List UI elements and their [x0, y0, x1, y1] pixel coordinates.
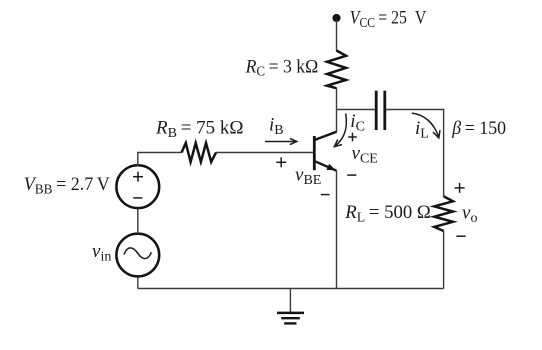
capacitor C	[376, 91, 385, 130]
svg-text:vCE: vCE	[352, 143, 378, 166]
svg-text:iC: iC	[350, 111, 365, 134]
resistor RB	[182, 143, 216, 162]
wire RB to base	[216, 152, 313, 154]
svg-text:RC = 3 kΩ: RC = 3 kΩ	[245, 56, 319, 79]
wire RC bottom to collector node	[336, 88, 338, 132]
source VBB circle	[116, 165, 159, 208]
wire bottom left to vin source	[137, 276, 139, 289]
svg-text:RL = 500 Ω: RL = 500 Ω	[344, 202, 430, 225]
bottom wire	[138, 288, 444, 290]
svg-text:VCC = 25 V: VCC = 25 V	[350, 7, 427, 30]
wire RL to bottom right corner	[443, 231, 445, 289]
current arrow iC	[334, 114, 346, 147]
wire capacitor to right corner	[386, 110, 444, 197]
wire collector node to capacitor	[337, 109, 375, 111]
svg-text:vBE: vBE	[295, 165, 321, 188]
svg-text:iB: iB	[269, 115, 284, 138]
plus sign inside VBB	[133, 172, 143, 182]
source vin circle	[116, 234, 159, 277]
plus sign vBE	[276, 157, 286, 167]
transistor Q1	[314, 132, 337, 171]
minus sign vBE	[321, 194, 330, 196]
svg-text:VBB = 2.7 V: VBB = 2.7 V	[24, 174, 110, 197]
minus sign vo	[456, 235, 465, 237]
sine wave	[124, 248, 151, 259]
svg-text:vin: vin	[92, 241, 111, 264]
current arrow iB	[265, 138, 297, 144]
svg-text:iL: iL	[415, 118, 429, 141]
minus sign inside VBB	[133, 197, 142, 199]
plus sign vo	[455, 183, 465, 193]
wire emitter down	[336, 171, 338, 289]
minus sign vCE	[347, 174, 356, 176]
node VCC dot	[332, 14, 340, 22]
current arrow iL	[412, 113, 440, 138]
wire VCC to RC	[336, 20, 338, 51]
resistor RL	[434, 196, 453, 231]
wire VBB to base corner	[138, 153, 182, 167]
svg-text:β = 150: β = 150	[451, 118, 506, 139]
svg-text:vo: vo	[462, 203, 477, 226]
wire between sources	[137, 208, 139, 233]
resistor RC	[327, 51, 346, 89]
plus sign vCE	[348, 133, 357, 142]
ground	[277, 289, 304, 324]
svg-text:RB = 75 kΩ: RB = 75 kΩ	[155, 118, 243, 141]
